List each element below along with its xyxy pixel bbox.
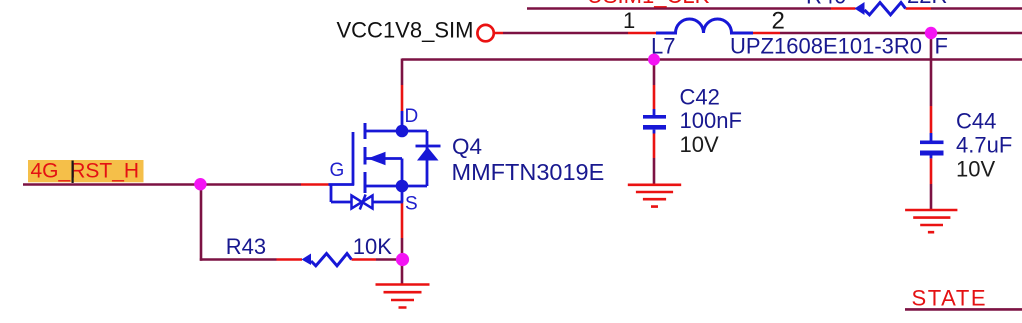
svg-text:1: 1: [623, 8, 635, 33]
svg-text:C44: C44: [956, 109, 996, 134]
svg-text:UPZ1608E101-3R0: UPZ1608E101-3R0: [730, 34, 922, 59]
svg-text:4.7uF: 4.7uF: [956, 133, 1012, 158]
svg-text:C42: C42: [680, 85, 720, 110]
svg-text:10V: 10V: [956, 157, 995, 182]
svg-text:VCC1V8_SIM: VCC1V8_SIM: [337, 18, 474, 43]
svg-text:MMFTN3019E: MMFTN3019E: [452, 159, 605, 185]
svg-text:R40: R40: [806, 0, 846, 9]
svg-text:G: G: [330, 160, 345, 181]
svg-text:22R: 22R: [907, 0, 947, 8]
svg-text:L7: L7: [651, 34, 675, 59]
svg-text:10V: 10V: [680, 132, 719, 157]
svg-text:S: S: [405, 194, 418, 215]
svg-text:4G_RST_H: 4G_RST_H: [31, 160, 140, 183]
svg-text:D: D: [405, 106, 419, 127]
svg-text:STATE: STATE: [912, 285, 988, 310]
svg-text:USIM1_CLK: USIM1_CLK: [587, 0, 710, 8]
svg-text:Q4: Q4: [452, 134, 482, 159]
svg-text:R43: R43: [226, 234, 266, 259]
svg-text:100nF: 100nF: [680, 108, 742, 133]
svg-text:F: F: [935, 34, 948, 59]
svg-text:2: 2: [772, 8, 785, 35]
svg-text:10K: 10K: [353, 234, 392, 259]
